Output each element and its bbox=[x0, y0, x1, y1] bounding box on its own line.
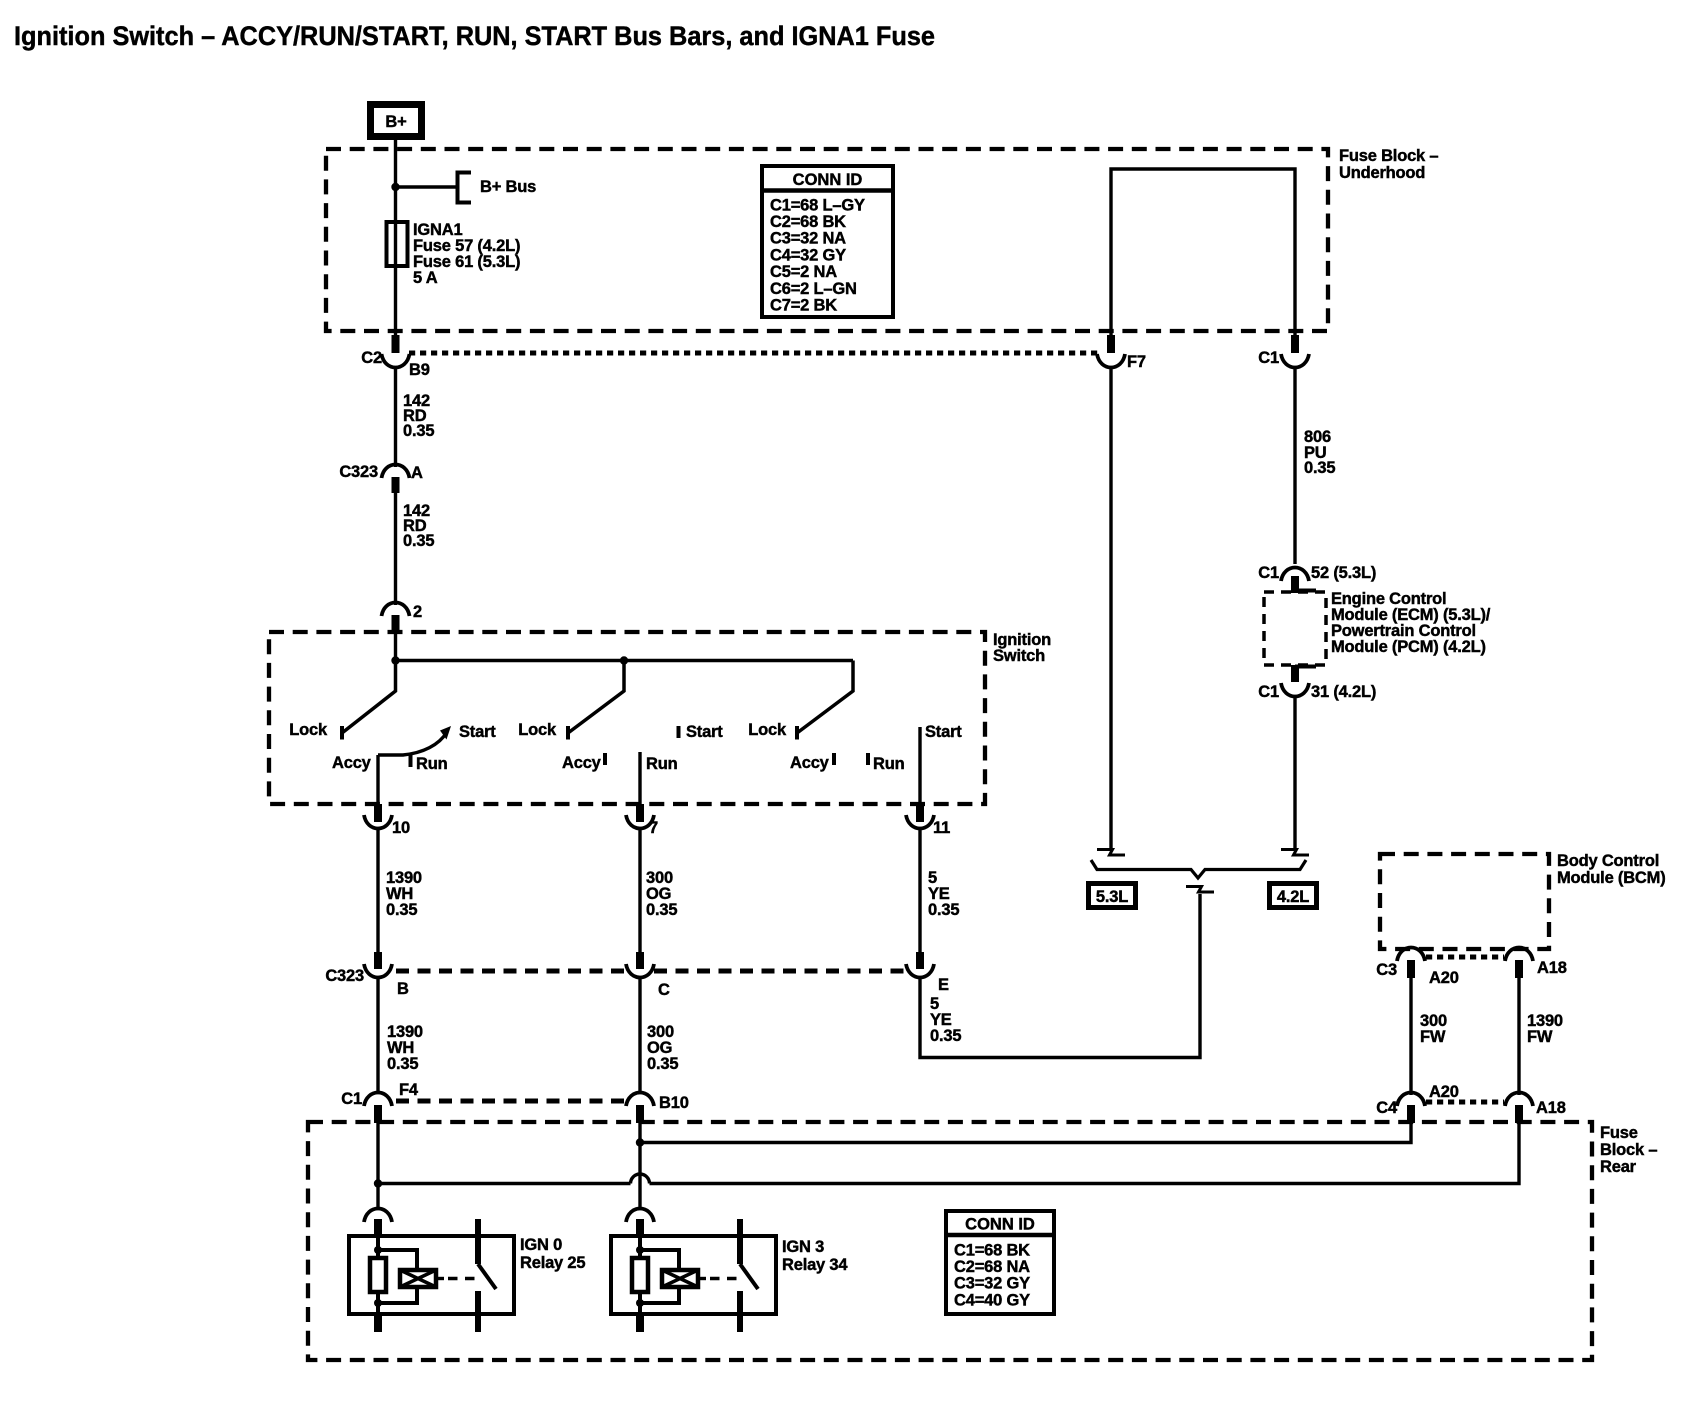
svg-text:C323: C323 bbox=[339, 463, 378, 481]
svg-text:Module (BCM): Module (BCM) bbox=[1557, 869, 1666, 887]
svg-text:Block –: Block – bbox=[1600, 1141, 1657, 1159]
wire 806 PU bbox=[1295, 366, 1335, 564]
wire F4 branch to A18 with hop bbox=[378, 1123, 1519, 1184]
relay IGN 0 coil circuit bbox=[370, 1236, 417, 1314]
wire 5 YE (lower) to engine select bbox=[920, 894, 1200, 1058]
svg-text:0.35: 0.35 bbox=[386, 901, 417, 919]
wire 1390 FW bbox=[1519, 978, 1563, 1095]
svg-text:Ignition Switch – ACCY/RUN/STA: Ignition Switch – ACCY/RUN/START, RUN, S… bbox=[14, 21, 935, 51]
wire switch 3 start output bbox=[918, 727, 921, 804]
wire dotted connector row F4-B10 bbox=[396, 1099, 626, 1104]
relay IGN 0 coil symbol bbox=[400, 1270, 444, 1287]
connector C1 52 (ECM 5.3L) bbox=[1258, 564, 1376, 593]
node B+ Bus symbol bbox=[458, 173, 537, 203]
svg-text:Relay 34: Relay 34 bbox=[782, 1256, 848, 1274]
pin C2 bbox=[392, 335, 400, 353]
svg-text:B+ Bus: B+ Bus bbox=[480, 178, 536, 196]
svg-text:11: 11 bbox=[933, 819, 950, 837]
label Fuse Block Rear bbox=[1600, 1124, 1657, 1176]
node junction B+ bus tap bbox=[391, 183, 399, 191]
wire F7 branch down bbox=[1109, 366, 1112, 848]
svg-text:E: E bbox=[938, 976, 949, 994]
fuse IGNA1 bbox=[387, 221, 521, 287]
svg-text:C2: C2 bbox=[361, 349, 382, 367]
wire 1390 WH (lower) bbox=[378, 979, 423, 1093]
connector 10 bbox=[364, 804, 410, 837]
svg-text:F4: F4 bbox=[399, 1081, 419, 1099]
node 4.2L tag bbox=[1270, 884, 1317, 908]
svg-text:Start: Start bbox=[459, 723, 496, 741]
svg-text:FW: FW bbox=[1527, 1028, 1553, 1046]
wire switch 2 run output bbox=[638, 752, 641, 804]
label Fuse Block Underhood bbox=[1339, 147, 1438, 182]
switch 3 position labels bbox=[748, 721, 962, 773]
pin relay IGN 3 coil bottom bbox=[636, 1314, 644, 1332]
svg-text:C3: C3 bbox=[1376, 961, 1397, 979]
svg-text:FW: FW bbox=[1420, 1028, 1446, 1046]
label A20 upper bbox=[1429, 969, 1459, 987]
body control module dashed box bbox=[1380, 854, 1549, 949]
svg-text:C323: C323 bbox=[325, 967, 364, 985]
svg-text:Run: Run bbox=[416, 755, 448, 773]
svg-text:C3=32 GY: C3=32 GY bbox=[954, 1275, 1030, 1293]
connector C323/A bbox=[339, 463, 423, 493]
svg-text:C7=2 BK: C7=2 BK bbox=[770, 297, 837, 315]
connector C2/B9 bbox=[361, 349, 429, 379]
connector F7 bbox=[1097, 353, 1146, 371]
wire 142 RD (upper) bbox=[396, 366, 435, 467]
pin relay IGN 0 coil bottom bbox=[374, 1314, 382, 1332]
switch 1 accy-run-start bus bar arc with arrow bbox=[378, 726, 451, 755]
relay IGN 3 box bbox=[611, 1236, 776, 1314]
wire B10 to relay IGN 3 bbox=[638, 1123, 641, 1210]
CONN ID table rear bbox=[946, 1211, 1054, 1314]
svg-text:0.35: 0.35 bbox=[930, 1027, 961, 1045]
svg-text:C1=68 BK: C1=68 BK bbox=[954, 1242, 1030, 1260]
switch 3 run contact tick bbox=[866, 753, 870, 765]
connector A18 (BCM) bbox=[1505, 948, 1567, 979]
CONN ID table underhood bbox=[762, 166, 893, 317]
svg-text:Switch: Switch bbox=[993, 647, 1045, 665]
relay IGN 3 coil symbol bbox=[662, 1270, 706, 1287]
wire fuse block internal bus to F7 and C1 bbox=[1111, 169, 1295, 335]
svg-text:IGN 0: IGN 0 bbox=[520, 1236, 562, 1254]
wire break symbol PCM end bbox=[1281, 850, 1309, 856]
connector 11 bbox=[906, 804, 950, 837]
svg-text:Relay 25: Relay 25 bbox=[520, 1254, 585, 1272]
switch wiper 1 bbox=[342, 661, 396, 740]
svg-text:A20: A20 bbox=[1429, 969, 1459, 987]
connector C3 (BCM) bbox=[1376, 948, 1425, 980]
svg-text:Start: Start bbox=[925, 723, 962, 741]
connector 2 (ignition switch) bbox=[382, 603, 423, 633]
svg-text:10: 10 bbox=[392, 819, 410, 837]
fuse block rear dashed box bbox=[308, 1122, 1592, 1360]
svg-text:C1: C1 bbox=[1258, 564, 1279, 582]
svg-text:B: B bbox=[397, 980, 409, 998]
svg-text:C4: C4 bbox=[1376, 1099, 1398, 1117]
svg-text:0.35: 0.35 bbox=[403, 532, 434, 550]
connector C4 (fuse block rear) bbox=[1376, 1093, 1425, 1124]
fuse block underhood dashed box bbox=[326, 149, 1328, 331]
svg-text:52 (5.3L): 52 (5.3L) bbox=[1311, 564, 1376, 582]
svg-text:Run: Run bbox=[646, 755, 678, 773]
switch wiper 2 bbox=[568, 661, 624, 740]
node junction B10 branch bbox=[636, 1138, 644, 1146]
connector E (C323) bbox=[906, 952, 949, 994]
label ECM PCM bbox=[1331, 590, 1491, 656]
wire B10 branch to C4 bbox=[640, 1123, 1411, 1143]
svg-text:C1=68 L–GY: C1=68 L–GY bbox=[770, 197, 865, 215]
wire break symbol F7 end bbox=[1097, 850, 1125, 856]
connector relay IGN 0 input bbox=[364, 1209, 392, 1237]
switch 2 accy contact tick bbox=[603, 753, 607, 765]
svg-text:5 A: 5 A bbox=[413, 269, 438, 287]
relay IGN 0 switch bbox=[478, 1219, 496, 1332]
svg-text:Start: Start bbox=[686, 723, 723, 741]
svg-text:C1: C1 bbox=[1258, 349, 1279, 367]
wire switch 1 output bbox=[376, 755, 379, 804]
svg-text:0.35: 0.35 bbox=[387, 1055, 418, 1073]
wire dotted rear connector row bbox=[1426, 1100, 1504, 1105]
wire break symbol engine select bbox=[1186, 887, 1214, 893]
svg-text:CONN ID: CONN ID bbox=[965, 1216, 1035, 1234]
svg-text:B10: B10 bbox=[659, 1094, 689, 1112]
wire F4 to relay IGN 0 bbox=[376, 1123, 379, 1210]
svg-text:A18: A18 bbox=[1536, 1099, 1566, 1117]
node junction F4 branch bbox=[374, 1179, 382, 1187]
svg-text:7: 7 bbox=[649, 819, 658, 837]
svg-text:C6=2 L–GN: C6=2 L–GN bbox=[770, 280, 857, 298]
svg-text:Lock: Lock bbox=[289, 721, 328, 739]
label A20 lower bbox=[1429, 1083, 1459, 1101]
wire 142 RD (lower) bbox=[396, 493, 435, 605]
svg-text:Body Control: Body Control bbox=[1557, 852, 1659, 870]
svg-text:A: A bbox=[411, 464, 423, 482]
svg-text:C5=2 NA: C5=2 NA bbox=[770, 263, 837, 281]
svg-text:IGN 3: IGN 3 bbox=[782, 1238, 824, 1256]
connector C1 31 (PCM 4.2L) bbox=[1258, 665, 1376, 701]
label BCM bbox=[1557, 852, 1666, 887]
svg-text:C1: C1 bbox=[1258, 683, 1279, 701]
wire 300 OG (lower) bbox=[640, 979, 678, 1093]
connector B10 bbox=[626, 1093, 689, 1124]
svg-text:Accy: Accy bbox=[562, 754, 602, 772]
svg-text:5.3L: 5.3L bbox=[1096, 888, 1128, 906]
svg-text:Fuse: Fuse bbox=[1600, 1124, 1638, 1142]
relay IGN 0 box bbox=[349, 1236, 514, 1314]
svg-text:A20: A20 bbox=[1429, 1083, 1459, 1101]
connector relay IGN 3 input bbox=[626, 1209, 654, 1237]
switch 2 start contact tick bbox=[677, 726, 681, 738]
connector A18 (fuse block rear) bbox=[1505, 1093, 1566, 1124]
svg-text:A18: A18 bbox=[1537, 959, 1567, 977]
svg-text:0.35: 0.35 bbox=[403, 422, 434, 440]
svg-text:0.35: 0.35 bbox=[646, 901, 677, 919]
svg-text:C4=40 GY: C4=40 GY bbox=[954, 1292, 1030, 1310]
relay IGN 3 mechanical link bbox=[710, 1277, 738, 1281]
wire B+ bus tap bbox=[396, 185, 457, 188]
svg-text:Module (PCM) (4.2L): Module (PCM) (4.2L) bbox=[1331, 638, 1486, 656]
svg-text:0.35: 0.35 bbox=[647, 1055, 678, 1073]
svg-text:Rear: Rear bbox=[1600, 1158, 1637, 1176]
svg-text:Run: Run bbox=[873, 755, 905, 773]
wire 300 OG (upper) bbox=[640, 827, 677, 952]
svg-text:0.35: 0.35 bbox=[1304, 459, 1335, 477]
relay IGN 3 switch bbox=[740, 1219, 758, 1332]
node 5.3L tag bbox=[1089, 884, 1136, 908]
op ECM/PCM dashed box bbox=[1264, 591, 1326, 667]
svg-text:C3=32 NA: C3=32 NA bbox=[770, 230, 846, 248]
wire B+ to fuse bbox=[394, 140, 397, 335]
svg-text:C: C bbox=[658, 981, 670, 999]
switch 1 position labels bbox=[289, 721, 496, 773]
connector C323/B bbox=[325, 952, 409, 998]
label Ignition Switch bbox=[993, 631, 1051, 665]
switch 3 accy contact tick bbox=[832, 753, 836, 765]
relay IGN 3 coil circuit bbox=[632, 1236, 679, 1314]
relay IGN 0 mechanical link bbox=[448, 1277, 476, 1281]
svg-text:Lock: Lock bbox=[518, 721, 557, 739]
connector 7 bbox=[626, 804, 658, 837]
connector C1 (fuse block) bbox=[1258, 349, 1309, 368]
svg-text:Accy: Accy bbox=[332, 754, 372, 772]
svg-text:Underhood: Underhood bbox=[1339, 164, 1425, 182]
pin F7 bbox=[1107, 335, 1115, 353]
svg-text:B+: B+ bbox=[385, 113, 406, 131]
svg-text:4.2L: 4.2L bbox=[1277, 888, 1309, 906]
svg-text:Accy: Accy bbox=[790, 754, 830, 772]
engine select brace bbox=[1091, 860, 1306, 878]
ignition switch dashed box bbox=[269, 632, 985, 804]
svg-text:CONN ID: CONN ID bbox=[793, 171, 863, 189]
svg-text:B9: B9 bbox=[409, 361, 430, 379]
switch 2 position labels bbox=[518, 721, 723, 773]
wire ignition switch feed bus bbox=[396, 632, 854, 661]
switch 1 run contact tick bbox=[409, 755, 413, 767]
svg-text:Fuse Block –: Fuse Block – bbox=[1339, 147, 1438, 165]
node junction bus 2 bbox=[620, 656, 628, 664]
svg-text:F7: F7 bbox=[1127, 353, 1146, 371]
wire dotted connector row C323 C-E bbox=[654, 969, 906, 974]
svg-text:C1: C1 bbox=[341, 1090, 362, 1108]
label relay IGN 3 bbox=[782, 1238, 848, 1274]
wire dotted BCM connector row bbox=[1426, 955, 1504, 960]
node junction bus 1 bbox=[391, 656, 399, 664]
svg-text:C2=68 NA: C2=68 NA bbox=[954, 1258, 1030, 1276]
node B+ terminal bbox=[371, 105, 422, 137]
pin C1 bbox=[1291, 335, 1299, 353]
wire 300 FW bbox=[1411, 978, 1447, 1095]
wire 5 YE (upper) bbox=[920, 827, 959, 952]
svg-text:C2=68 BK: C2=68 BK bbox=[770, 213, 846, 231]
svg-text:2: 2 bbox=[413, 603, 422, 621]
connector C (C323) bbox=[626, 952, 670, 999]
svg-text:0.35: 0.35 bbox=[928, 901, 959, 919]
title bbox=[14, 21, 935, 51]
wire PCM output down bbox=[1293, 695, 1296, 848]
wire dotted connector row C323 B-C bbox=[396, 969, 626, 974]
switch wiper 3 bbox=[797, 661, 853, 740]
svg-text:31 (4.2L): 31 (4.2L) bbox=[1311, 683, 1376, 701]
svg-text:C4=32 GY: C4=32 GY bbox=[770, 247, 846, 265]
label relay IGN 0 bbox=[520, 1236, 585, 1272]
connector C1/F4 bbox=[341, 1081, 419, 1123]
wire 1390 WH (upper) bbox=[378, 827, 422, 952]
svg-text:Lock: Lock bbox=[748, 721, 787, 739]
wire dotted connector row C2 to F7 bbox=[409, 351, 1098, 356]
